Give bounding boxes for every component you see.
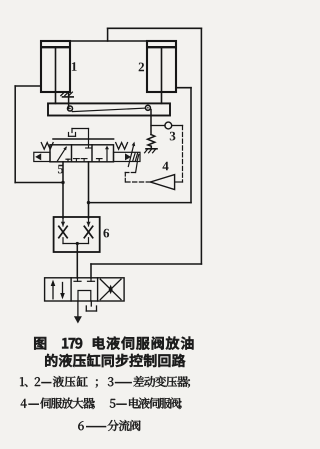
- wire: junction up to servo valve B: [88, 162, 90, 203]
- sensor rod from right pivot: [150, 110, 152, 135]
- valve 5 left solenoid: [34, 152, 50, 161]
- anchor hatching (fixed frame): [61, 92, 73, 97]
- wire: bottom run to valve B port: [91, 263, 201, 265]
- valve 5 proportional arrow through solenoid: [128, 142, 135, 167]
- servo amplifier 4 (triangle): [150, 175, 174, 190]
- spring anchor with hatching: [145, 149, 157, 153]
- pressure source line and symbol: [74, 301, 82, 324]
- label 4: [162, 162, 168, 171]
- electro-hydraulic servo valve 5 body: [50, 145, 114, 162]
- wire: junction up to servo valve A: [62, 162, 64, 183]
- dashed signal wire amplifier to servo valve solenoid: [125, 162, 150, 182]
- label 3: [170, 132, 176, 141]
- wire: top horizontal run: [108, 27, 202, 29]
- valve 5 left box flow arrow: [58, 146, 71, 162]
- flow divider valve 6 body: [54, 217, 100, 252]
- wire: junction down to flow divider right inlet: [88, 203, 90, 218]
- directional valve left box arrows: [51, 280, 65, 300]
- wire: right vertical run down: [200, 28, 202, 264]
- valve 5 left spring W: [41, 143, 53, 150]
- valve 5 right spring W: [116, 143, 128, 150]
- flow divider internal collector: [63, 243, 89, 245]
- tank symbol: [86, 301, 96, 311]
- label 6: [103, 229, 109, 238]
- pivot left (circle with dot): [68, 106, 73, 111]
- valve 5 right box arrow and blocked port: [97, 146, 110, 162]
- wire: rod-side line between cylinder tops: [70, 40, 147, 42]
- wire to transformer: [151, 125, 165, 127]
- valve 5 centre box blocked ports: [74, 145, 92, 162]
- caption figure title and legend: [20, 336, 193, 431]
- junction node C: [76, 242, 79, 245]
- label 5: [58, 165, 64, 174]
- directional valve body (3 position): [45, 278, 125, 301]
- wire: cylinder 1 port to left: [15, 85, 41, 87]
- wire from transformer to dashed signal: [172, 125, 183, 127]
- hydraulic cylinder 1: [41, 41, 70, 103]
- directional valve right box crossed flows: [100, 279, 121, 299]
- anchor link to left pivot: [68, 92, 70, 109]
- label 2: [139, 63, 144, 72]
- wire: divider outlet down to directional valve: [76, 244, 78, 279]
- wire: junction down to flow divider left inlet: [62, 183, 64, 219]
- valve 5 drain hook to small tank: [69, 129, 89, 145]
- valve 5 pilot line above: [53, 138, 114, 140]
- differential transformer 3 (circle): [165, 122, 172, 129]
- wire: branch up from top line: [107, 28, 109, 41]
- dashed signal wire down to amplifier: [182, 126, 184, 183]
- pivot right (circle with dot): [145, 105, 150, 110]
- hydraulic cylinder 2: [147, 41, 176, 103]
- spring (zigzag): [148, 135, 155, 149]
- label 1: [72, 62, 77, 71]
- valve 5 right solenoid: [114, 152, 141, 161]
- flow divider left throttle: [59, 218, 67, 244]
- beam platform: [48, 103, 170, 115]
- directional valve centre box blocked ports and bypass: [74, 278, 95, 301]
- junction node B1: [87, 201, 90, 204]
- wire: cylinder 2 port to right: [176, 87, 191, 89]
- junction node A1: [61, 181, 64, 184]
- flow divider right throttle: [84, 218, 92, 244]
- lever arm: [72, 108, 145, 112]
